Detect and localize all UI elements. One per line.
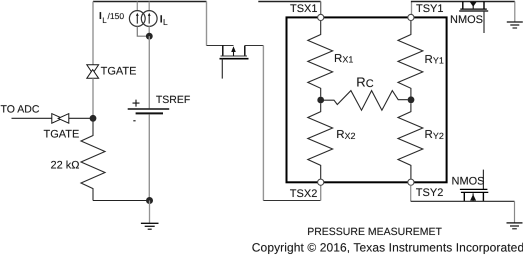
svg-text:Copyright © 2016, Texas Instru: Copyright © 2016, Texas Instruments Inco… [252,241,523,255]
node mid dot left [317,97,324,104]
transistor Q1 (mid NMOS) [207,46,249,79]
wire top-left rail [93,1,207,3]
wire TSREF vertical lower [148,114,150,200]
current source IL [141,2,168,28]
wire current source bottoms [137,26,149,36]
svg-text:PRESSURE MEASUREMET: PRESSURE MEASUREMET [307,226,442,238]
wire to Q1 drain from top [206,2,208,46]
resistor RY2 [398,103,444,179]
wire left vertical lower [92,78,94,118]
svg-text:TGATE: TGATE [44,128,80,140]
svg-text:NMOS: NMOS [450,14,483,26]
svg-text:RY1: RY1 [425,54,444,66]
node junction dot below current sources [146,33,153,40]
svg-text:RX1: RX1 [334,53,353,65]
svg-text:TO ADC: TO ADC [1,104,40,116]
wire top rail to TSX1 [258,1,320,3]
resistor RX2 [308,103,356,179]
current source IL/150 [99,2,145,27]
wire Q1 drain to TSX2 [245,45,264,47]
svg-text:TSX2: TSX2 [290,188,318,200]
bridge box [287,17,447,182]
node junction dot bottom-left [146,197,153,204]
wire TSY2 to NMOS source rail [410,185,412,201]
resistor RY1 [398,21,444,97]
svg-text:NMOS: NMOS [452,176,485,188]
ground left [141,201,159,230]
svg-text:TSX1: TSX1 [290,3,318,15]
transistor U2 NMOS top-right [450,2,488,34]
node TSY1 terminal [408,14,414,20]
wire TSY1 to NMOS rail [411,2,413,15]
battery TSREF [128,94,191,121]
svg-text:RX2: RX2 [336,129,355,141]
node TSX1 terminal [318,14,324,20]
svg-text:TGATE: TGATE [101,66,137,78]
resistor 22 kOhm [51,118,106,200]
node TSY2 terminal [408,179,414,185]
wire bottom-left rail [93,200,150,202]
resistor RX1 [308,21,354,97]
svg-text:TSY1: TSY1 [416,3,444,15]
wire TSREF vertical upper [148,36,150,108]
wire left vertical upper [92,2,94,65]
node TSX2 terminal [318,179,324,185]
tgate TGATE horizontal [44,114,80,141]
svg-text:22 kΩ: 22 kΩ [51,160,80,172]
resistor RC [324,74,408,110]
node mid dot right [408,96,415,103]
svg-text:/150: /150 [108,11,125,21]
svg-text:RY2: RY2 [425,129,444,141]
tgate TGATE vertical [87,65,137,79]
svg-text:TSY2: TSY2 [416,187,444,199]
svg-text:L: L [163,17,168,27]
ground bottom-right [507,201,523,229]
node junction dot at TGATE/ADC [90,115,97,122]
wire TO ADC horizontal [12,117,94,119]
transistor U3 NMOS bottom-right [452,170,489,202]
svg-text:TSREF: TSREF [156,94,190,106]
ground top-right [507,2,523,29]
